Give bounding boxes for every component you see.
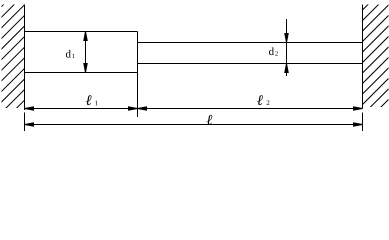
label l [207, 115, 213, 125]
large bar segment d1 outline [25, 32, 138, 73]
left extension line [24, 113, 26, 132]
dimension line l2 [138, 107, 363, 110]
left wall edge [24, 5, 26, 111]
left wall hatching [0, 0, 40, 156]
dimension line l total [25, 123, 363, 126]
dimension line l1 [25, 107, 138, 110]
right wall hatching [352, 0, 389, 157]
right wall edge [362, 5, 364, 109]
small bar segment d2 outline [138, 43, 363, 64]
label d2 [269, 47, 274, 55]
label l2 [257, 95, 263, 105]
d1 dimension line with arrows [84, 32, 87, 73]
label d1 [66, 50, 71, 58]
step extension line [137, 73, 139, 118]
right extension line [362, 113, 364, 132]
d2 dimension line with arrows [285, 19, 288, 76]
label l1 [86, 95, 92, 105]
